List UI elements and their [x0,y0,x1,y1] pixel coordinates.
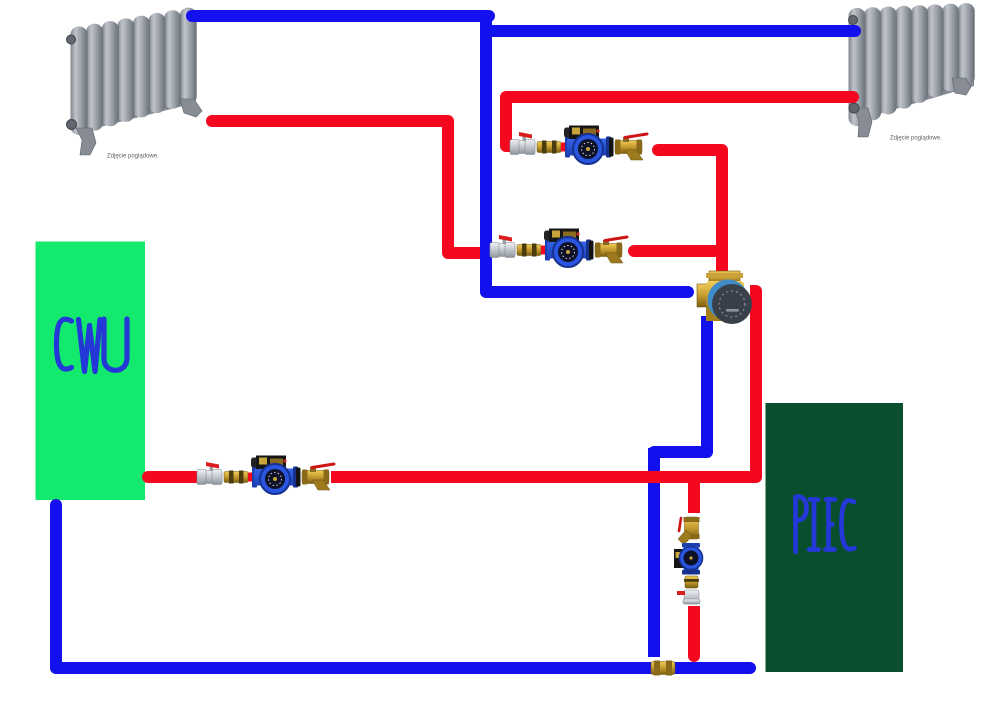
PIEC text [796,497,855,552]
CWU text [57,319,128,372]
pump group row2 [490,228,627,267]
CWU tank box [36,242,146,501]
pump vertical [682,543,700,548]
wire: right radiator to row1 feed [506,97,853,146]
strainer valve vertical [679,518,681,531]
wire: drop to mixing valve [486,16,688,292]
wire: blue over red at crossing [480,244,492,262]
svg-text:Zdjęcie poglądowe.: Zdjęcie poglądowe. [107,154,159,160]
PIEC boiler box [766,403,904,672]
wire: CWU bottom return long run [56,505,750,668]
wire: right radiator supply [486,25,855,37]
wire: left radiator supply top [192,10,489,22]
wire: row2 pump out [634,245,722,257]
vertical pump group near boiler [674,513,706,606]
silver valve vertical [684,590,699,604]
3-way mixing valve [697,271,752,324]
wire: valve out down and left to CWU [148,291,756,477]
blue pipes [56,16,855,668]
wire: row1 pump out down to valve top [658,150,722,272]
wire: boiler return drop (flat end) [648,448,660,657]
red pipes [148,97,853,656]
radiator right (photo) [849,3,975,137]
wire: valve bottom to boiler return jog [654,316,707,452]
svg-text:Zdjęcie poglądowe.: Zdjęcie poglądowe. [890,136,942,142]
pump group CWU [197,455,334,494]
brass union on bottom return [651,661,675,676]
union vertical [685,576,698,588]
wire: boiler feed branch down [688,477,700,656]
radiator left (photo) [67,8,203,155]
pump group row1 [510,125,647,164]
wire: left radiator to row2 pump feed [212,121,482,253]
